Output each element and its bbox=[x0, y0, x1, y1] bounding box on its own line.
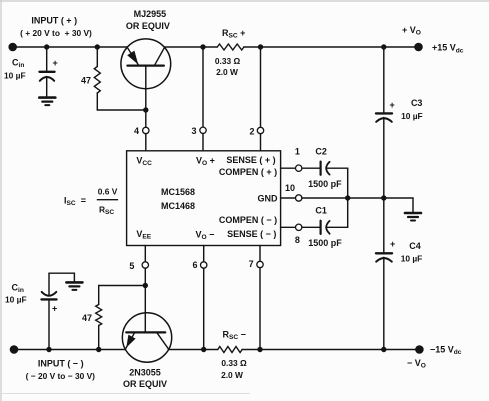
node Cin+ tap bbox=[44, 44, 49, 49]
svg-text:1500 pF: 1500 pF bbox=[308, 179, 342, 189]
node Cin- tap bbox=[46, 347, 51, 352]
svg-text:+: + bbox=[53, 58, 58, 68]
wire pin5 lead bbox=[144, 246, 146, 262]
svg-text:3: 3 bbox=[191, 126, 196, 136]
svg-text:47: 47 bbox=[82, 313, 92, 323]
node Q2 base junction bbox=[143, 283, 148, 288]
wire C2 to gnd junction bbox=[347, 168, 349, 198]
svg-text:RSC +: RSC + bbox=[222, 28, 245, 40]
capacitor C3 bbox=[376, 113, 392, 198]
wire C1 to gnd junction bbox=[347, 198, 349, 227]
node C3 tap bbox=[381, 44, 386, 49]
svg-text:Cin: Cin bbox=[12, 57, 24, 69]
svg-text:+ VO: + VO bbox=[402, 25, 421, 37]
wire gnd stub to ground symbol bbox=[384, 198, 413, 212]
svg-text:+: + bbox=[52, 304, 57, 314]
svg-text:+: + bbox=[390, 239, 395, 249]
svg-text:MC1468: MC1468 bbox=[161, 201, 195, 211]
svg-text:( − 20 V to − 30 V): ( − 20 V to − 30 V) bbox=[26, 371, 96, 381]
terminal +15 Vdc bbox=[414, 43, 423, 52]
svg-text:ISC =: ISC = bbox=[64, 196, 86, 208]
wire pin1 lead bbox=[281, 167, 296, 169]
resistor Rsc- bbox=[218, 347, 242, 353]
svg-text:1500 pF: 1500 pF bbox=[308, 238, 342, 248]
svg-text:( + 20 V to + 30 V): ( + 20 V to + 30 V) bbox=[20, 28, 92, 38]
wire bottom rail left bbox=[14, 349, 125, 351]
wire bottom rail right bbox=[169, 349, 218, 351]
svg-text:+15 Vdc: +15 Vdc bbox=[432, 43, 464, 55]
svg-text:−15 Vdc: −15 Vdc bbox=[430, 344, 462, 356]
svg-text:COMPEN ( − ): COMPEN ( − ) bbox=[219, 215, 277, 225]
svg-text:2: 2 bbox=[249, 127, 254, 137]
wire pin4 lead bbox=[145, 110, 147, 127]
svg-text:10 µF: 10 µF bbox=[5, 295, 27, 305]
svg-text:OR EQUIV: OR EQUIV bbox=[123, 379, 167, 389]
svg-text:C2: C2 bbox=[315, 147, 327, 157]
pin 4 bbox=[143, 127, 149, 133]
svg-text:2.0 W: 2.0 W bbox=[221, 370, 243, 380]
resistor 47 (bottom) bbox=[96, 286, 102, 350]
svg-text:4: 4 bbox=[134, 126, 139, 136]
resistor 47 (top) bbox=[94, 47, 100, 110]
scan border top bbox=[0, 0, 489, 2]
wire R2 top to Q2 base node bbox=[99, 285, 146, 287]
transistor Q2 2N3055 bbox=[122, 286, 171, 363]
svg-text:C4: C4 bbox=[409, 241, 421, 251]
svg-text:COMPEN ( + ): COMPEN ( + ) bbox=[219, 167, 277, 177]
svg-text:5: 5 bbox=[129, 261, 134, 271]
wire pin7 lead bbox=[259, 246, 261, 262]
svg-text:10 µF: 10 µF bbox=[401, 254, 423, 264]
svg-text:10: 10 bbox=[285, 183, 295, 193]
svg-text:+: + bbox=[390, 100, 395, 110]
svg-text:INPUT ( + ): INPUT ( + ) bbox=[31, 16, 77, 26]
pin 8 bbox=[296, 224, 302, 230]
terminal -15 Vdc bbox=[415, 345, 424, 354]
capacitor C2 bbox=[321, 162, 348, 175]
pin 3 bbox=[200, 127, 206, 133]
node C4 bottom rail bbox=[381, 347, 386, 352]
wire right vertical to C4 bbox=[383, 198, 385, 253]
svg-text:6: 6 bbox=[192, 260, 197, 270]
capacitor C1 bbox=[321, 221, 348, 234]
wire pin10 lead bbox=[281, 197, 296, 199]
node C1C2 junction bbox=[345, 195, 350, 200]
svg-text:C3: C3 bbox=[411, 98, 423, 108]
wire pin8 lead bbox=[281, 226, 296, 228]
wire right vertical +Vo branch bbox=[383, 47, 385, 113]
Isc fraction bar bbox=[97, 199, 118, 201]
svg-text:0.33 Ω: 0.33 Ω bbox=[221, 358, 247, 368]
svg-text:RSC −: RSC − bbox=[223, 329, 246, 341]
wire top rail left (input+ to Q1 emitter) bbox=[13, 46, 128, 48]
ground (above Cin-) bbox=[66, 282, 82, 290]
pin 7 bbox=[257, 261, 263, 267]
svg-text:− VO: − VO bbox=[407, 358, 426, 370]
scan border left bbox=[0, 0, 2, 401]
resistor Rsc+ bbox=[217, 44, 244, 50]
wire top rail right (Q1 collector to +Vo terminal) bbox=[164, 46, 217, 48]
pin 1 bbox=[296, 165, 302, 171]
pin 5 bbox=[142, 262, 148, 268]
svg-text:GND: GND bbox=[258, 193, 279, 203]
terminal input (-) bbox=[10, 345, 19, 354]
wire R1 bottom to Q1 base node bbox=[97, 109, 146, 111]
ground (right, supply common) bbox=[405, 213, 421, 221]
node Rsc- left / pin6 bbox=[201, 347, 206, 352]
transistor Q1 MJ2955 bbox=[121, 39, 171, 110]
svg-text:2.0 W: 2.0 W bbox=[216, 67, 238, 77]
svg-text:MJ2955: MJ2955 bbox=[134, 9, 167, 19]
svg-text:MC1568: MC1568 bbox=[161, 187, 195, 197]
terminal input (+) bbox=[8, 43, 17, 52]
svg-text:10 µF: 10 µF bbox=[401, 111, 423, 121]
node Rsc+ right / pin2 bbox=[258, 44, 263, 49]
node gnd junction on right vertical bbox=[381, 195, 386, 200]
pin 6 bbox=[201, 262, 207, 268]
svg-text:1: 1 bbox=[295, 147, 300, 157]
svg-text:0.6 V: 0.6 V bbox=[98, 187, 118, 197]
svg-text:C1: C1 bbox=[315, 205, 327, 215]
node R2 tap bbox=[96, 347, 101, 352]
svg-text:SENSE ( − ): SENSE ( − ) bbox=[227, 229, 276, 239]
IC U1 MC1568/MC1468 bbox=[127, 151, 281, 246]
capacitor Cin (+ input) bbox=[40, 47, 55, 96]
svg-text:INPUT ( − ): INPUT ( − ) bbox=[38, 358, 84, 368]
ground (below Cin+) bbox=[39, 98, 55, 106]
pin 2 bbox=[257, 127, 263, 133]
wire pin3 lead bbox=[202, 47, 204, 127]
svg-text:10 µF: 10 µF bbox=[4, 70, 26, 80]
scan artifact bottom bbox=[0, 393, 250, 395]
wire pin6 lead bbox=[203, 246, 205, 262]
svg-text:7: 7 bbox=[249, 259, 254, 269]
wire pin2 lead bbox=[260, 47, 262, 127]
node Q1 base junction bbox=[143, 107, 148, 112]
capacitor Cin (- input) bbox=[42, 273, 57, 349]
node Rsc+ left / pin3 bbox=[200, 44, 205, 49]
node Rsc- right / pin7 bbox=[257, 347, 262, 352]
pin 10 bbox=[296, 195, 302, 201]
svg-text:0.33 Ω: 0.33 Ω bbox=[215, 56, 241, 66]
capacitor C4 bbox=[376, 253, 392, 349]
svg-text:RSC: RSC bbox=[99, 205, 114, 216]
svg-text:Cin: Cin bbox=[12, 282, 24, 294]
svg-text:47: 47 bbox=[81, 75, 91, 85]
svg-text:SENSE ( + ): SENSE ( + ) bbox=[226, 155, 275, 165]
node R1 tap bbox=[95, 44, 100, 49]
svg-text:2N3055: 2N3055 bbox=[129, 368, 161, 378]
wire Cin- to ground bbox=[49, 273, 74, 281]
svg-text:8: 8 bbox=[295, 235, 300, 245]
svg-text:OR EQUIV: OR EQUIV bbox=[126, 21, 170, 31]
